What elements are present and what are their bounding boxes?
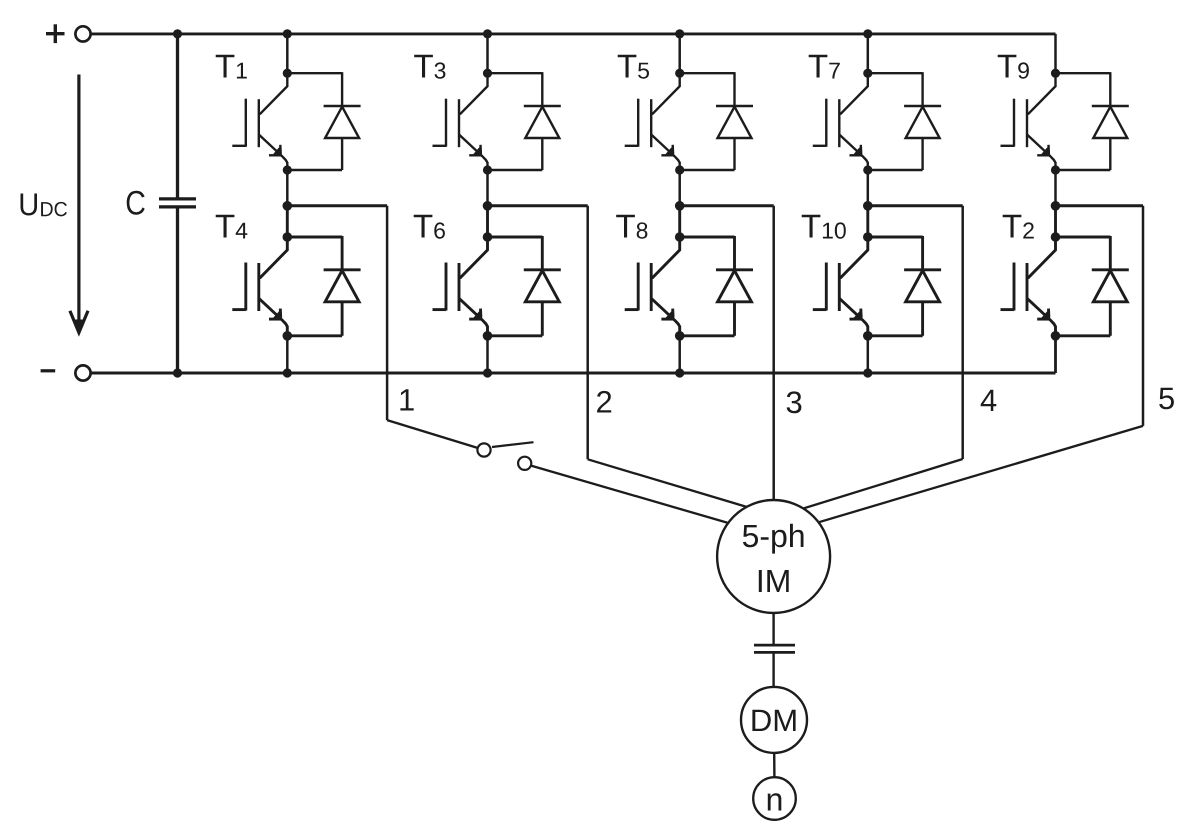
leg 4 upper wire	[867, 34, 870, 73]
diode across T2	[1056, 236, 1129, 336]
wire phase 4 to motor	[790, 459, 963, 513]
label T6	[414, 215, 445, 239]
transistor T8	[625, 237, 680, 336]
junction leg 1 top rail	[283, 29, 292, 38]
node emitter T2	[1051, 331, 1061, 341]
node emitter T1	[283, 165, 292, 174]
wire phase 2 to motor	[588, 459, 755, 509]
junction leg 4 bottom rail	[863, 368, 872, 377]
node collector T2	[1051, 232, 1061, 242]
label phase 4	[981, 390, 997, 411]
node emitter T8	[675, 331, 685, 341]
junction capacitor bottom	[173, 368, 182, 377]
minus terminal	[41, 365, 91, 380]
node collector T5	[675, 69, 684, 78]
label phase 2	[597, 391, 611, 413]
node phase 4	[863, 201, 873, 211]
junction leg 3 bottom rail	[675, 368, 684, 377]
switch contact (open)	[477, 442, 533, 470]
transistor T10	[813, 237, 868, 336]
transistor T5	[625, 73, 680, 170]
wire phase 2 output	[491, 206, 588, 459]
coupling	[754, 645, 795, 652]
label phase 1	[400, 389, 413, 410]
diode across T8	[680, 236, 753, 336]
junction leg 2 top rail	[483, 29, 492, 38]
wire emitter T7 to phase node 4	[867, 170, 870, 206]
node phase 1	[283, 201, 293, 211]
node collector T4	[283, 232, 293, 242]
node emitter T6	[483, 331, 493, 341]
node emitter T10	[863, 331, 873, 341]
wire emitter T4 to bottom rail	[286, 336, 289, 373]
node collector T9	[1051, 69, 1060, 78]
node phase 3	[675, 201, 685, 211]
diode across T4	[287, 236, 360, 336]
top DC rail	[91, 32, 1056, 35]
label T5	[618, 55, 649, 79]
node emitter T4	[283, 331, 293, 341]
speed sensor n	[753, 777, 796, 820]
diode across T6	[488, 236, 561, 336]
capacitor C	[159, 34, 196, 373]
junction capacitor top	[173, 29, 182, 38]
wire emitter T3 to phase node 2	[486, 170, 489, 206]
leg 2 upper wire	[486, 34, 489, 73]
node phase 5	[1051, 201, 1061, 211]
wire phase 5 to motor	[800, 426, 1143, 528]
node collector T10	[863, 232, 873, 242]
wire phase 5 output	[1059, 206, 1144, 426]
transistor T4	[232, 237, 287, 336]
label T8	[616, 215, 647, 239]
label T10	[802, 215, 846, 239]
junction leg 3 top rail	[675, 29, 684, 38]
label T9	[998, 55, 1029, 79]
node collector T3	[483, 69, 492, 78]
node collector T8	[675, 232, 685, 242]
wire emitter T1 to phase node 1	[286, 170, 289, 206]
wire phase 1 to switch	[387, 420, 477, 448]
label T4	[216, 215, 248, 239]
transistor T7	[813, 73, 868, 170]
node emitter T5	[675, 165, 684, 174]
node collector T7	[863, 69, 872, 78]
label T3	[414, 55, 445, 79]
label phase 5	[1159, 388, 1174, 410]
wire phase node to collector T2	[1054, 206, 1057, 237]
wire phase 3 output	[683, 206, 774, 557]
wire emitter T6 to bottom rail	[486, 336, 489, 373]
label phase 3	[787, 391, 802, 413]
wire phase 4 output	[871, 206, 963, 459]
diode across T3	[488, 72, 561, 170]
bottom DC rail	[91, 372, 1056, 375]
wire emitter T10 to bottom rail	[867, 336, 870, 373]
wire emitter T9 to phase node 5	[1054, 170, 1057, 206]
wire emitter T8 to bottom rail	[678, 336, 681, 373]
label C	[127, 191, 145, 215]
diode across T10	[868, 236, 941, 336]
wire phase 1 output	[290, 206, 387, 420]
plus terminal	[46, 24, 91, 43]
diode across T5	[680, 72, 753, 170]
label Udc	[21, 194, 67, 217]
node emitter T7	[863, 165, 872, 174]
label T2	[1003, 215, 1034, 239]
shaft DM to speed sensor	[773, 753, 776, 777]
junction leg 2 bottom rail	[483, 368, 492, 377]
junction leg 1 bottom rail	[283, 368, 292, 377]
leg 3 upper wire	[678, 34, 681, 73]
wire emitter T5 to phase node 3	[678, 170, 681, 206]
leg 1 upper wire	[286, 34, 289, 73]
leg 5 upper wire	[1054, 34, 1057, 373]
transistor T1	[232, 73, 287, 170]
node collector T1	[283, 69, 292, 78]
wire phase node to collector T10	[866, 206, 869, 237]
wire phase node to collector T8	[678, 206, 681, 237]
transistor T2	[1001, 237, 1056, 336]
node emitter T9	[1051, 165, 1060, 174]
node phase 2	[483, 201, 493, 211]
wire switch to motor	[531, 466, 740, 527]
dynamometer DM	[741, 687, 807, 753]
transistor T9	[1001, 73, 1056, 170]
diode across T1	[287, 72, 360, 170]
label T7	[809, 55, 840, 79]
transistor T3	[433, 73, 488, 170]
diode across T7	[868, 72, 941, 170]
node collector T6	[483, 232, 493, 242]
label T1	[216, 55, 247, 79]
Udc arrow	[70, 75, 88, 334]
junction leg 4 top rail	[863, 29, 872, 38]
transistor T6	[433, 237, 488, 336]
wire phase node to collector T6	[486, 206, 489, 237]
shaft motor to coupling	[772, 613, 774, 645]
node emitter T3	[483, 165, 492, 174]
shaft coupling to DM	[772, 652, 774, 688]
diode across T9	[1056, 72, 1129, 170]
motor 5-ph IM	[717, 500, 830, 613]
wire phase node to collector T4	[286, 206, 289, 237]
